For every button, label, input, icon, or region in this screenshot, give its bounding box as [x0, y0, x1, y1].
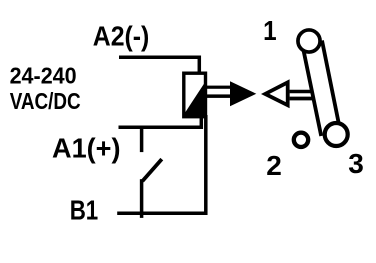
svg-text:24-240: 24-240	[10, 62, 77, 88]
svg-text:VAC/DC: VAC/DC	[10, 88, 81, 114]
svg-text:A2(-): A2(-)	[93, 21, 150, 52]
svg-text:3: 3	[348, 148, 364, 179]
svg-text:B1: B1	[70, 195, 99, 226]
svg-text:2: 2	[266, 150, 282, 181]
svg-text:A1(+): A1(+)	[52, 133, 121, 164]
svg-text:1: 1	[263, 15, 277, 46]
